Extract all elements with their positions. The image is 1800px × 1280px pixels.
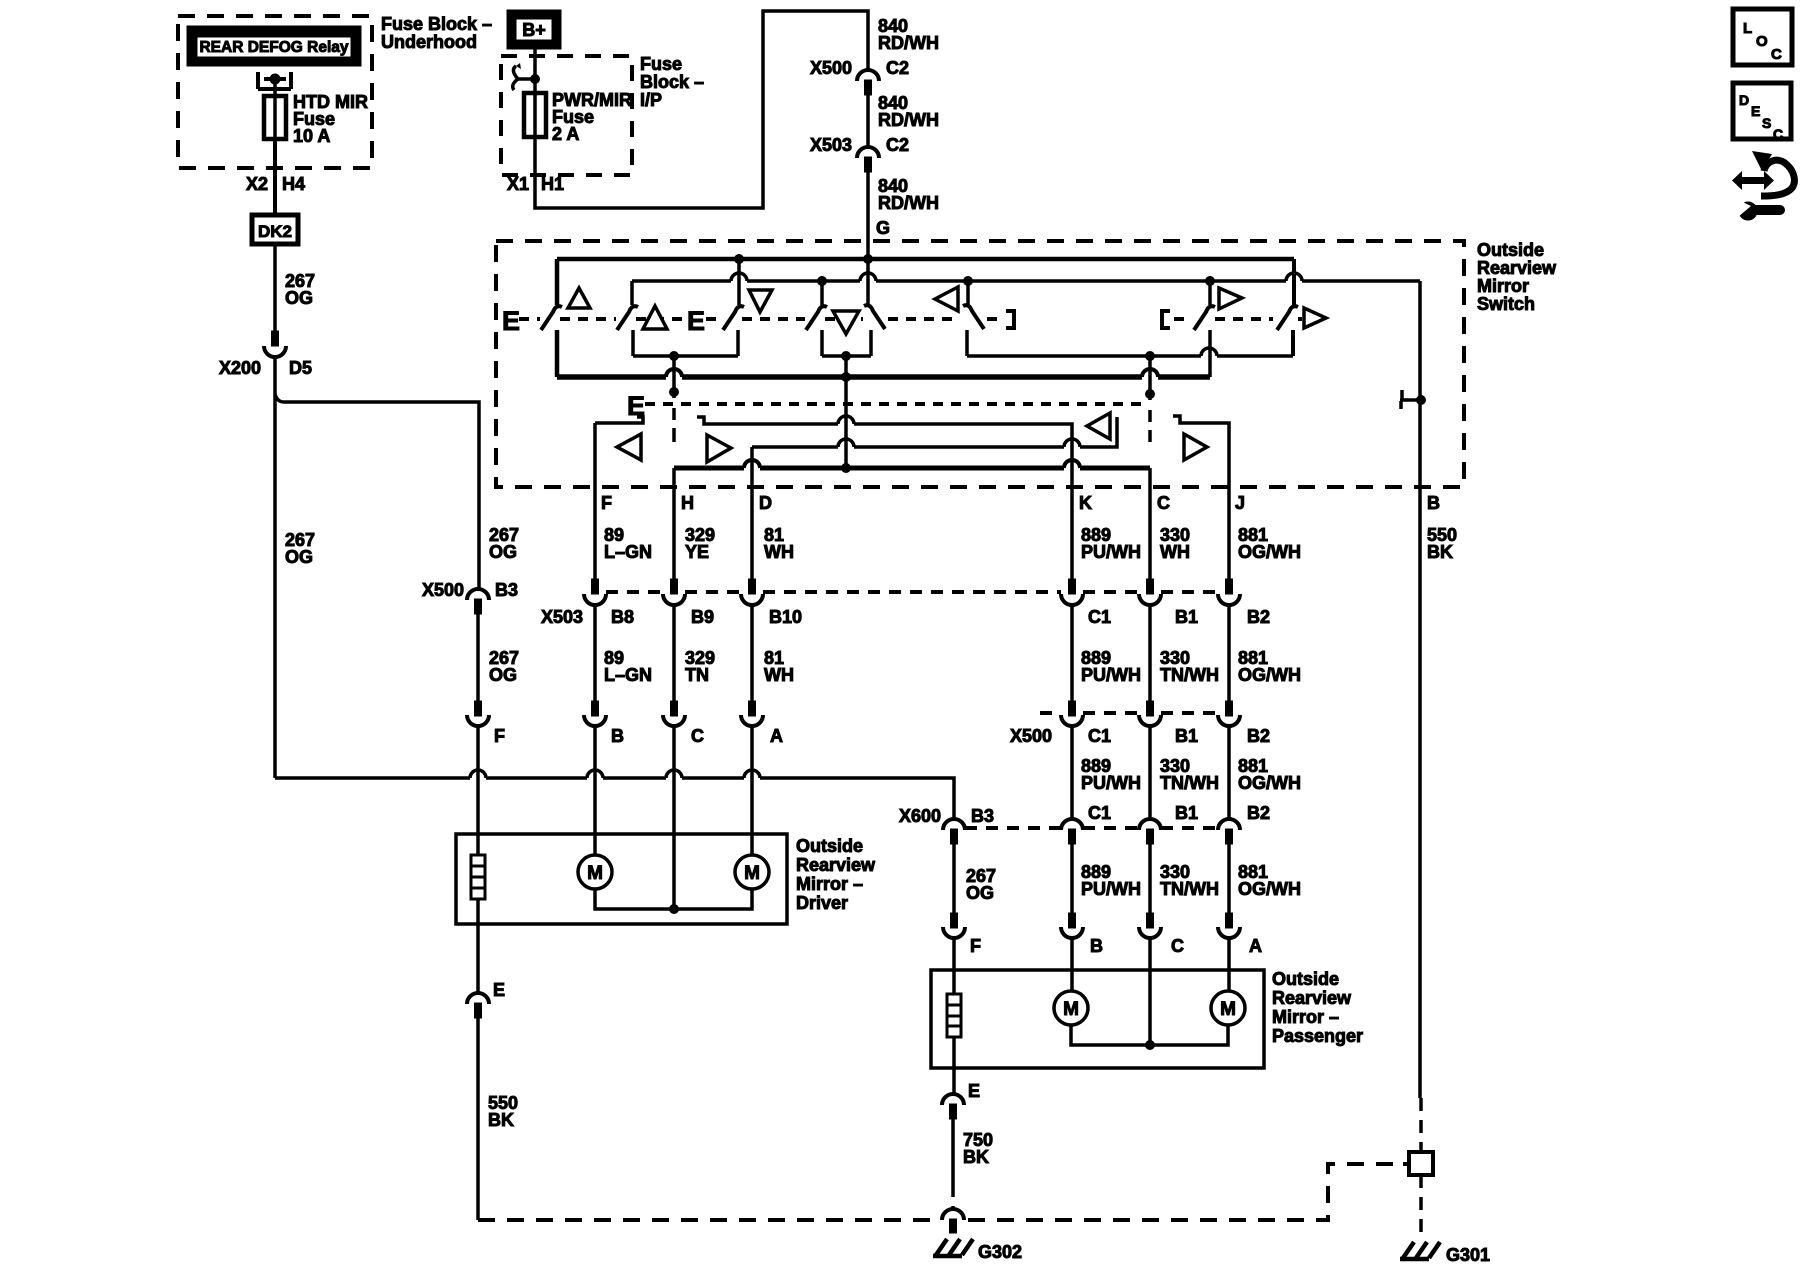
dashed harness line row2 [1040,711,1218,715]
wire F stub [595,417,643,423]
wire passenger F into heater [952,938,956,994]
svg-text:Mirror: Mirror [1477,276,1529,296]
common wire 846 down to wire C, hops drawn on wires A,B [844,356,848,468]
svg-text:G: G [876,218,890,238]
triangle left lower 8 [617,434,641,460]
svg-text:C: C [691,726,704,746]
svg-text:H4: H4 [282,174,305,194]
svg-text:OG: OG [285,547,313,567]
terminal B hook [1400,398,1421,402]
svg-text:A: A [1249,936,1262,956]
wire 550 BK down [476,1018,480,1220]
wire DK2 to X200, 267 OG [273,244,277,331]
wire 840 RD/WH into switch [866,172,870,259]
mech bracket right-end [1006,311,1014,328]
svg-text:RD/WH: RD/WH [878,33,939,53]
fuse HTD MIR 10A [264,96,286,139]
svg-text:OG/WH: OG/WH [1238,773,1301,793]
svg-text:Outside: Outside [1272,969,1339,989]
mech bracket left-start [1162,311,1170,328]
svg-text:Passenger: Passenger [1272,1026,1363,1046]
wire fuse to switch G: route right and up [535,11,868,208]
wire passenger E down [952,1037,956,1094]
svg-text:H1: H1 [541,174,564,194]
wire fuse to DK2 [273,139,277,215]
svg-text:REAR DEFOG Relay: REAR DEFOG Relay [199,39,348,56]
svg-text:L: L [1743,20,1752,37]
wire X500 B3 to mirror F, 267 OG [476,614,480,701]
circuit breaker hook [518,77,535,81]
ground G301 [1400,1242,1440,1259]
svg-text:TN/WH: TN/WH [1160,879,1219,899]
svg-text:2 A: 2 A [552,124,579,144]
G302 junction connector [942,1209,964,1220]
trunk 267 OG horizontal with hops [275,778,954,819]
svg-text:B1: B1 [1175,726,1198,746]
connector passenger B [1069,913,1076,928]
motor M1 passenger [1070,938,1074,991]
lower contact rail right (blades 6-8) with hop at 1209 [967,354,1293,358]
svg-text:M: M [1063,999,1079,1020]
connector B2 row1 [1226,579,1233,594]
svg-text:OG: OG [285,288,313,308]
blade8 contacts [1293,259,1294,356]
svg-text:B9: B9 [691,607,714,627]
svg-text:D: D [1739,92,1749,108]
svg-text:DK2: DK2 [258,222,292,241]
svg-text:B: B [611,726,624,746]
svg-text:RD/WH: RD/WH [878,110,939,130]
connector driver A [749,701,756,716]
wire relay to fuse [273,81,277,96]
driver mirror box [456,834,787,924]
svg-text:10 A: 10 A [293,126,330,146]
passenger mirror box [931,970,1264,1068]
connector B1 row2 [1147,701,1154,716]
svg-text:C: C [1773,126,1783,142]
connector driver C [671,701,678,716]
svg-text:D: D [759,493,772,513]
svg-text:Rearview: Rearview [1272,988,1352,1008]
svg-text:C: C [1171,936,1184,956]
blade1 contacts [555,259,560,377]
blade2 [617,306,638,330]
up/down lower contact rail mid (blades 4-5) [822,354,871,358]
svg-text:RD/WH: RD/WH [878,193,939,213]
relay pin socket bracket [258,72,291,89]
svg-text:M: M [1220,999,1236,1020]
svg-text:WH: WH [764,665,794,685]
svg-text:B3: B3 [495,580,518,600]
svg-text:A: A [770,726,783,746]
DESC icon box [1733,83,1791,142]
svg-text:S: S [1762,115,1771,131]
svg-text:C: C [1157,493,1170,513]
dashed harness line row1 [606,590,1218,594]
wire into driver mirror (crosses y778 line) [476,726,480,855]
wire 840 RD/WH [866,95,870,147]
connector passenger A [1226,913,1233,928]
svg-text:Rearview: Rearview [1477,258,1557,278]
triangle left 5 [935,287,958,311]
wire B dashed to splice [1419,1098,1423,1152]
connector X500 C1 row2 [1069,701,1076,716]
switch thick bottom bus with hops at 674,1150 [557,374,1210,380]
wires row2 to row3 [1072,726,1229,820]
connector X500 C2 [857,70,879,81]
svg-text:J: J [1235,493,1245,513]
svg-text:BK: BK [963,1147,989,1167]
switch outer bus (top) [557,257,1294,262]
svg-text:L–GN: L–GN [604,542,652,562]
node dot blade3 feed [735,255,744,264]
svg-text:WH: WH [764,542,794,562]
blade4 [806,306,827,330]
svg-text:B: B [1090,936,1103,956]
svg-text:Outside: Outside [1477,240,1544,260]
svg-text:B+: B+ [522,20,546,40]
blade4 contacts [820,281,824,356]
svg-text:M: M [744,863,760,884]
svg-text:X600: X600 [899,806,941,826]
svg-text:E: E [502,306,520,336]
svg-text:TN/WH: TN/WH [1160,665,1219,685]
svg-text:Mirror –: Mirror – [1272,1007,1339,1027]
blade6 contacts [967,281,968,356]
svg-text:D5: D5 [289,358,312,378]
svg-text:H: H [681,493,694,513]
blade8 [1277,306,1298,330]
wire A (to K) with hop at 846 [697,417,1072,487]
svg-text:OG/WH: OG/WH [1238,879,1301,899]
svg-text:Rearview: Rearview [796,855,876,875]
blade1 [541,306,562,330]
svg-text:Outside: Outside [796,836,863,856]
connector X500 B3 [467,589,489,600]
triangle down 3 [749,290,772,312]
connector B1 row1 [1147,579,1154,594]
svg-text:I/P: I/P [640,90,662,110]
svg-text:B10: B10 [769,607,802,627]
svg-text:X2: X2 [246,174,268,194]
connector passenger F [951,913,958,928]
relay REAR DEFOG Relay [187,26,361,66]
svg-text:PU/WH: PU/WH [1081,665,1141,685]
blade2 contacts [632,281,633,356]
LOC icon box [1733,9,1792,65]
repair icon (arrow + wrench) [1732,151,1794,220]
svg-text:OG: OG [489,542,517,562]
svg-text:OG/WH: OG/WH [1238,542,1301,562]
svg-text:OG: OG [966,883,994,903]
wire B+ down [533,49,537,96]
ground dashed bus [478,1164,1403,1220]
ground G302 [933,1239,973,1256]
svg-text:PU/WH: PU/WH [1081,879,1141,899]
svg-text:E: E [493,980,505,1000]
svg-text:E: E [1751,103,1760,119]
svg-text:B1: B1 [1175,607,1198,627]
connector X600 B3 [943,819,965,830]
mech link 674 [672,356,676,398]
svg-text:Mirror –: Mirror – [796,874,863,894]
motor common jog driver [595,889,752,909]
svg-text:TN: TN [685,665,709,685]
svg-text:K: K [1079,493,1092,513]
triangle left lower 10 [1087,413,1110,439]
triangle right 6 [1219,288,1242,309]
svg-text:Fuse: Fuse [640,54,682,74]
heater element passenger [947,994,961,1037]
svg-text:Driver: Driver [796,893,848,913]
connector B10 [749,579,756,594]
svg-text:X200: X200 [219,358,261,378]
svg-text:X500: X500 [810,58,852,78]
svg-text:F: F [601,493,612,513]
svg-text:TN/WH: TN/WH [1160,773,1219,793]
connector DK2 [252,215,298,244]
connector X503 C2 [857,147,879,158]
svg-text:C1: C1 [1088,726,1111,746]
up/down lower contact rail left (blades 2-3) [633,354,738,358]
svg-text:B3: B3 [971,806,994,826]
connector B2 row3 [1218,819,1240,830]
svg-text:B: B [1427,493,1440,513]
svg-text:Switch: Switch [1477,294,1535,314]
svg-text:X503: X503 [541,607,583,627]
svg-text:B2: B2 [1247,803,1270,823]
svg-text:F: F [970,936,981,956]
hop arcs on inner bus [731,273,1302,281]
svg-text:E: E [687,306,705,336]
fuse PWR/MIR 2A [524,93,546,137]
svg-text:PU/WH: PU/WH [1081,773,1141,793]
svg-text:E: E [968,1081,980,1101]
svg-text:G302: G302 [978,1242,1022,1262]
wire X200 down (267 OG trunk) [273,357,277,778]
svg-text:BK: BK [488,1110,514,1130]
connector driver mirror F [475,701,482,716]
heater element driver [471,855,485,899]
wire branch to X500 B3 [275,394,479,589]
mech link 1150 [1148,356,1152,400]
triangle right lower 9 [707,435,731,462]
svg-text:O: O [1756,33,1768,50]
svg-text:PU/WH: PU/WH [1081,542,1141,562]
svg-text:F: F [494,726,505,746]
svg-text:C1: C1 [1088,803,1111,823]
dashed harness line row3 [965,826,1218,830]
svg-text:YE: YE [685,542,709,562]
wire D (stub to J) [1173,416,1229,487]
blade7 contacts [1208,281,1212,377]
svg-text:OG/WH: OG/WH [1238,665,1301,685]
connector C1 row1 [1069,579,1076,594]
connector B9 [671,579,678,594]
motor common jog passenger [1071,1025,1228,1045]
connector driver B [592,701,599,716]
triangle down 4 [833,311,859,334]
triangle right 7 [1304,308,1326,328]
wires between row1 and row2 [595,605,752,701]
svg-text:B2: B2 [1247,607,1270,627]
blade5 contact (fed by G wire) [868,259,871,356]
triangle up 2 [643,306,667,329]
splice box [1409,1152,1433,1175]
svg-text:G301: G301 [1446,1245,1490,1265]
svg-text:B2: B2 [1247,726,1270,746]
svg-text:Fuse Block –: Fuse Block – [381,14,492,34]
B+ terminal [507,10,561,49]
switch dashed box [496,241,1464,487]
svg-text:Underhood: Underhood [381,32,477,52]
connector C1 row3 [1061,819,1083,830]
node dots on inner bus [818,277,827,286]
wires down to X503 row [595,487,752,579]
motor M2 passenger [1227,938,1231,991]
svg-text:M: M [587,863,603,884]
node dot G feed [864,255,873,264]
connector B2 row2 [1226,701,1233,716]
connector passenger C [1147,913,1154,928]
wire B (D to stub) hops at 846,1072 [752,417,1117,447]
svg-text:BK: BK [1427,542,1453,562]
svg-text:C2: C2 [886,58,909,78]
wire driver mirror E down [476,899,480,993]
blade6 [963,305,984,329]
wire 750 BK [951,1119,955,1184]
blade7 [1194,306,1215,330]
fuse block I/P dashed box [501,56,632,175]
motor M2 driver [750,726,754,855]
svg-text:C1: C1 [1088,607,1111,627]
blade3 contacts [738,259,739,356]
svg-text:C: C [1771,46,1782,63]
wire B bus from inner rail down [1418,281,1422,1098]
blade5 [864,305,885,329]
connector X503 B8 [592,579,599,594]
triangle right lower 11 [1184,434,1207,460]
blade3 [723,306,744,330]
connector X200 D5 [272,331,279,346]
svg-text:C2: C2 [886,135,909,155]
switch inner bus (to B) with hops at 739,868,1294 [632,279,1420,283]
svg-text:B1: B1 [1175,803,1198,823]
svg-text:X503: X503 [810,135,852,155]
wire C thick (H to C) hops at 752,1072 [674,466,1150,471]
svg-text:X500: X500 [422,580,464,600]
connector B1 row3 [1139,819,1161,830]
motor M1 driver [593,726,597,855]
svg-text:Block –: Block – [640,72,704,92]
triangle up 1 [568,288,590,308]
svg-text:OG: OG [489,665,517,685]
svg-text:WH: WH [1160,542,1190,562]
fuse block underhood dashed box [178,16,372,168]
svg-text:L–GN: L–GN [604,665,652,685]
svg-text:X500: X500 [1010,726,1052,746]
svg-text:X1: X1 [507,174,529,194]
svg-text:B8: B8 [611,607,634,627]
wires row3 to passenger row [954,844,1229,913]
